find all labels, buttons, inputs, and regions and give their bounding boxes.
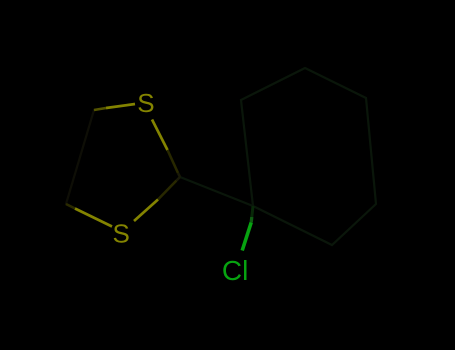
svg-text:Cl: Cl bbox=[222, 255, 248, 286]
svg-text:S: S bbox=[137, 88, 154, 118]
svg-text:S: S bbox=[113, 219, 130, 249]
